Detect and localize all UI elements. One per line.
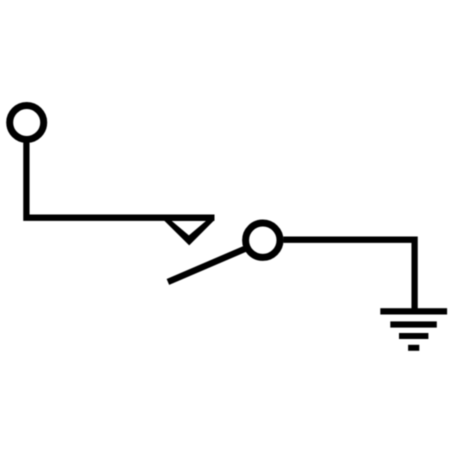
switch contact triangle (158, 215, 215, 246)
terminal T2 (246, 223, 280, 257)
terminal T1 (10, 106, 44, 140)
wire (26, 141, 214, 218)
ground (380, 308, 447, 351)
switch lever (168, 248, 247, 282)
wire (283, 240, 414, 312)
